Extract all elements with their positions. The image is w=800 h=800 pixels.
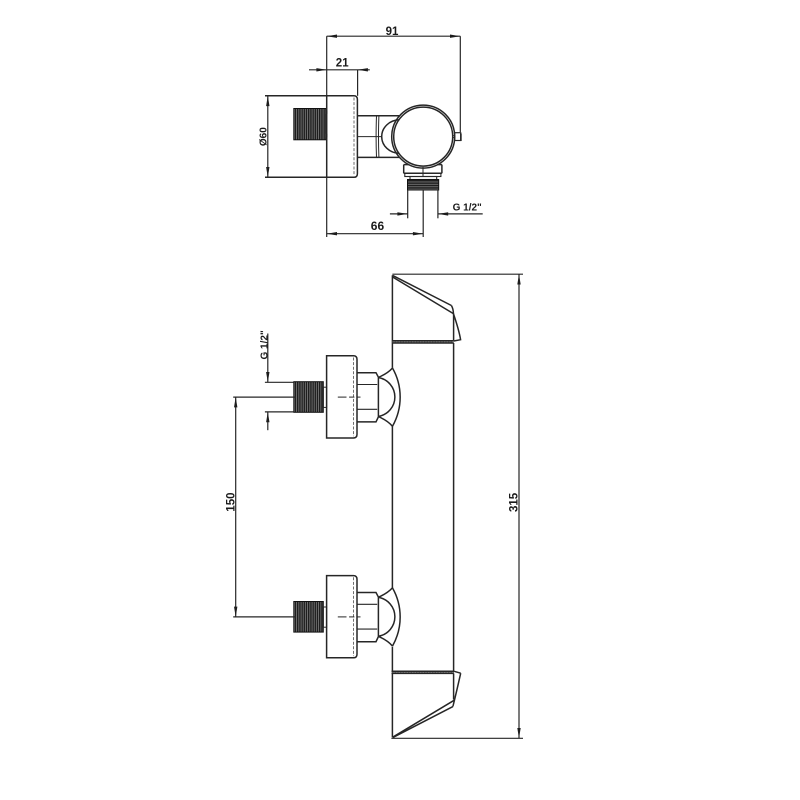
neck center seam (357, 136, 381, 138)
washer (323, 387, 326, 407)
neck between plate and valve (357, 115, 399, 117)
knurled grip (294, 109, 326, 140)
arrow dim 66 right (413, 232, 423, 235)
svg-text:150: 150 (226, 493, 238, 512)
arrow dim 66 left (327, 232, 337, 235)
G12 ext top (265, 381, 294, 383)
flare bottom (378, 417, 392, 427)
bottom hatch band (392, 671, 455, 673)
svg-text:21: 21 (336, 57, 349, 69)
dim 91 line (327, 35, 461, 37)
ball arc (379, 378, 395, 417)
valve body inner circle (394, 107, 453, 166)
dim 150 (235, 397, 237, 617)
arrow dim 91 right (450, 35, 460, 38)
plate seam line (353, 98, 355, 176)
dim 21 line (309, 69, 370, 71)
dim Ø60 line (267, 96, 269, 178)
dim 315 (518, 274, 520, 738)
lower inlet thread (294, 602, 324, 633)
arrow dim 91 left (327, 35, 337, 38)
handle body (side view) top and bottom edges (265, 95, 327, 97)
escutcheon (327, 356, 357, 438)
arrow dim 150 bottom (234, 607, 237, 617)
lower inlet hex nut (357, 593, 378, 642)
lower inlet flares, bulge, ball arc (378, 588, 392, 597)
ball joint arc (382, 120, 400, 154)
svg-text:G 1/2": G 1/2" (453, 203, 482, 214)
svg-text:91: 91 (386, 26, 399, 38)
body left edge (391, 275, 393, 368)
arrow dim O60 top (266, 96, 269, 106)
G12 dim line lower seg (267, 412, 269, 430)
arrow dim 21 right (358, 68, 368, 71)
svg-text:G 1/2": G 1/2" (259, 330, 270, 359)
outlet flange (405, 173, 441, 176)
G12 ext bottom (265, 411, 294, 413)
arrows top view (266, 35, 460, 236)
top hatch band (392, 341, 453, 343)
G12 dim line upper seg (267, 334, 269, 383)
dim 66 line (327, 233, 424, 235)
outlet center seam (422, 167, 424, 176)
arrows bottom view (234, 274, 521, 738)
arrow dim 21 left (316, 68, 326, 71)
arrow dim G1/2 inlet top (266, 372, 269, 382)
svg-text:Ø60: Ø60 (258, 127, 269, 146)
arrow dim G1/2 inlet bottom (266, 412, 269, 422)
arrow dim O60 bottom (266, 167, 269, 177)
bottom ext line (391, 737, 523, 739)
outlet thread (408, 180, 439, 191)
thread (294, 382, 324, 413)
dim G12 top view (390, 213, 408, 215)
150 ext lower (233, 616, 296, 618)
svg-text:315: 315 (509, 492, 521, 512)
outer bulge (392, 368, 400, 427)
arrow dim G1/2 outlet left (397, 212, 407, 215)
bottom beak (453, 673, 461, 706)
150 ext upper (233, 396, 296, 398)
labels top view (258, 26, 482, 233)
valve body outer circle (392, 105, 455, 168)
body right edge (453, 314, 455, 341)
top cap slants (392, 275, 451, 305)
bottom cap slants (393, 700, 455, 737)
lower inlet escutcheon (327, 576, 357, 658)
svg-text:66: 66 (371, 219, 385, 233)
ext line right of 91 (459, 36, 461, 132)
arrow dim 150 top (234, 397, 237, 407)
labels bottom view (226, 330, 521, 512)
outlet housing below valve (404, 164, 410, 166)
arrow dim G1/2 outlet right (438, 212, 448, 215)
flare top (378, 368, 392, 377)
ext right of 21 (357, 70, 359, 96)
top ext line (392, 273, 523, 275)
arrow dim 315 top (517, 274, 520, 284)
top beak (453, 314, 460, 341)
ext thread sides (407, 190, 409, 218)
stop button (455, 133, 461, 141)
arrow dim 315 bottom (517, 728, 520, 738)
ext line left long (91/21/Ø60/66 shared) (326, 36, 328, 96)
hex nut (357, 373, 378, 422)
ext center of outlet (422, 190, 424, 237)
wall plate (escutcheon, side view) (327, 96, 358, 178)
neck ring (375, 116, 377, 158)
centerline dashes (338, 396, 361, 398)
